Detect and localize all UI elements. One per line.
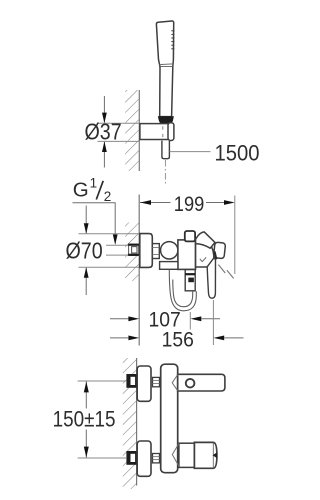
- centerline dashes in bracket: [162, 126, 164, 137]
- hand shower handle: [160, 67, 173, 117]
- lever handle: [207, 258, 215, 298]
- svg-text:199: 199: [174, 192, 204, 216]
- label 107: [149, 307, 181, 331]
- bottom union nut (bottom view): [153, 454, 160, 463]
- wall hatching (middle view): [125, 223, 139, 282]
- leader line 1500: [170, 151, 211, 153]
- diverter knob on top: [185, 231, 195, 241]
- hose loop: [169, 270, 196, 311]
- label 1500: [215, 140, 260, 165]
- svg-text:1500: 1500: [215, 140, 260, 165]
- spray ticks on head: [171, 31, 174, 49]
- mixer body (bottom view): [161, 364, 178, 473]
- svg-text:150±15: 150±15: [53, 407, 116, 432]
- svg-text:Ø70: Ø70: [66, 238, 103, 264]
- arm chamfer mark: [172, 375, 178, 391]
- label G 1/2: [73, 176, 112, 205]
- lever swing dash-dot lines: [218, 265, 233, 279]
- outlet housing under body: [160, 262, 178, 270]
- cartridge dome: [196, 241, 214, 267]
- svg-text:G: G: [73, 179, 89, 202]
- dimension Ø70 extension lines: [79, 234, 153, 267]
- wall hatching (top view): [125, 90, 139, 171]
- hub check mark line: [200, 257, 206, 261]
- label 156: [162, 327, 194, 351]
- svg-text:1: 1: [90, 176, 98, 191]
- G 1/2 fitting (wall nipple): [128, 244, 139, 255]
- wall hatching (bottom view): [123, 358, 137, 489]
- wall line (top view): [138, 90, 140, 171]
- lever neck (bottom view): [179, 443, 195, 467]
- dimension 150±15 arrows: [84, 382, 89, 458]
- label Ø37: [85, 119, 122, 145]
- grip edge shadow: [215, 252, 217, 260]
- wall bracket bar: [140, 123, 174, 141]
- shower hose nipple (bottom outlet): [185, 270, 195, 291]
- svg-text:2: 2: [104, 189, 112, 204]
- dimension 156: [110, 300, 244, 345]
- top union nut (bottom view): [153, 377, 160, 386]
- top in-wall fitting: [127, 375, 136, 387]
- dimension 199: [140, 196, 235, 275]
- dimension Ø37 arrows: [102, 96, 107, 168]
- label Ø70: [66, 238, 103, 264]
- union nut (middle view): [152, 244, 159, 259]
- S-union ball: [161, 242, 178, 259]
- G 1/2 leader with arrow: [73, 203, 118, 245]
- label 199: [174, 192, 204, 216]
- holder cone (dark grip): [158, 117, 173, 125]
- lever knob cylinder (bottom view): [194, 442, 217, 468]
- bottom in-wall fitting: [127, 452, 136, 464]
- lever arm wedge: [196, 232, 215, 248]
- escutcheon (middle view): [140, 234, 153, 268]
- top escutcheon (bottom view): [137, 366, 151, 401]
- svg-text:156: 156: [162, 327, 194, 351]
- lever neck chamfer: [172, 444, 179, 467]
- mixer body (middle view): [178, 240, 196, 270]
- knob end arrow mark: [213, 452, 218, 458]
- dimension 150±15 extension lines: [78, 381, 127, 458]
- dimension Ø37 extension lines: [98, 123, 140, 141]
- spout / bracket arm: [178, 374, 225, 391]
- G 1/2 fitting extension lines: [106, 245, 129, 255]
- bottom escutcheon (bottom view): [137, 441, 151, 476]
- arm circle (hand shower holder hole): [186, 379, 195, 388]
- label 150±15: [53, 407, 116, 432]
- hand shower centerline: [164, 160, 166, 184]
- wall line (middle view): [138, 195, 140, 346]
- hand shower head: [156, 21, 173, 67]
- dimension Ø70 arrows: [84, 206, 89, 296]
- lever grip end: [213, 242, 225, 259]
- dimension 107: [110, 312, 220, 330]
- wall line (bottom view): [136, 358, 138, 486]
- hose (top view): [162, 141, 170, 159]
- svg-text:Ø37: Ø37: [85, 119, 122, 145]
